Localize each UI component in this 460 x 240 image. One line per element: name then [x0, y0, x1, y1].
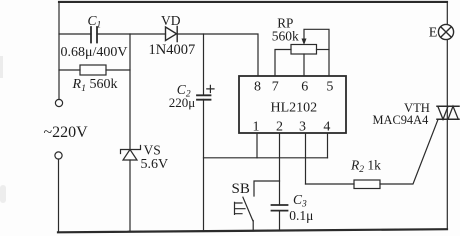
capacitor C3: [272, 205, 288, 211]
resistor R1: [80, 65, 106, 75]
svg-text:HL2102: HL2102: [271, 101, 318, 116]
wire RP wiper link to pin5: [304, 29, 329, 76]
lamp E: [438, 24, 453, 39]
wire main rail y34: [59, 34, 258, 76]
label C2 plus sign: [207, 85, 214, 92]
svg-text:R1 560k: R1 560k: [72, 77, 118, 94]
wire top right border: [446, 2, 448, 25]
svg-text:1: 1: [253, 120, 260, 135]
wire bottom rail: [58, 229, 447, 232]
svg-text:VD: VD: [161, 13, 181, 28]
wire pin1 drop: [256, 133, 258, 158]
svg-text:7: 7: [272, 80, 279, 95]
svg-text:VS: VS: [144, 142, 161, 157]
svg-text:SB: SB: [232, 181, 250, 197]
wire R2 to gate: [380, 120, 438, 185]
diode VD: [166, 27, 178, 42]
potentiometer RP wiper arrow: [302, 39, 307, 46]
wire lamp to triac: [446, 40, 448, 107]
switch SB actuator: [235, 202, 246, 214]
svg-text:4: 4: [323, 120, 330, 135]
svg-text:8: 8: [254, 80, 261, 95]
wire top rail: [59, 1, 447, 3]
wire C3 bottom lead: [279, 211, 281, 231]
svg-text:MAC94A4: MAC94A4: [373, 113, 429, 127]
wire left border upper: [58, 2, 60, 100]
svg-text:3: 3: [299, 120, 306, 135]
scan smudge left upper: [0, 56, 3, 78]
svg-text:R2 1k: R2 1k: [350, 158, 381, 176]
node AC terminal lower: [55, 152, 62, 159]
wire RP right link: [317, 49, 330, 51]
svg-text:560k: 560k: [272, 28, 299, 43]
capacitor C2: [197, 95, 211, 99]
svg-text:0.68μ/400V: 0.68μ/400V: [61, 45, 128, 60]
wire R1 branch: [59, 69, 130, 71]
wire SB link: [254, 181, 280, 196]
resistor R2: [354, 180, 380, 189]
svg-text:0.1μ: 0.1μ: [289, 208, 313, 223]
node AC terminal upper: [55, 99, 62, 106]
IC U1 HL2102 box: [239, 76, 346, 133]
potentiometer RP: [291, 45, 317, 55]
wire RP bottom to pin6: [303, 54, 305, 76]
zener VS: [121, 146, 141, 161]
svg-text:E: E: [429, 26, 438, 41]
capacitor C1: [91, 27, 97, 43]
wire pin3 to R2: [306, 183, 355, 185]
svg-text:2: 2: [276, 120, 283, 135]
wire pin2 drop: [279, 133, 281, 205]
wire pin3 drop: [305, 133, 307, 184]
svg-text:1N4007: 1N4007: [149, 42, 196, 58]
svg-text:5.6V: 5.6V: [141, 157, 169, 172]
svg-text:6: 6: [301, 80, 308, 95]
scan smudge left lower: [0, 185, 6, 203]
wire RP left to pin7: [275, 50, 291, 77]
triac VTH: [437, 106, 459, 119]
wire pin4 drop: [327, 133, 329, 158]
switch SB: [243, 197, 253, 231]
wire C2 drop: [203, 34, 205, 231]
svg-text:~220V: ~220V: [44, 124, 89, 141]
wire triac to bottom rail: [446, 119, 448, 229]
svg-text:5: 5: [326, 80, 333, 95]
wire mid vertical x130: [129, 34, 131, 232]
svg-text:220μ: 220μ: [169, 95, 196, 110]
wire ground bus y158: [204, 157, 328, 159]
wire left border lower: [58, 159, 60, 232]
